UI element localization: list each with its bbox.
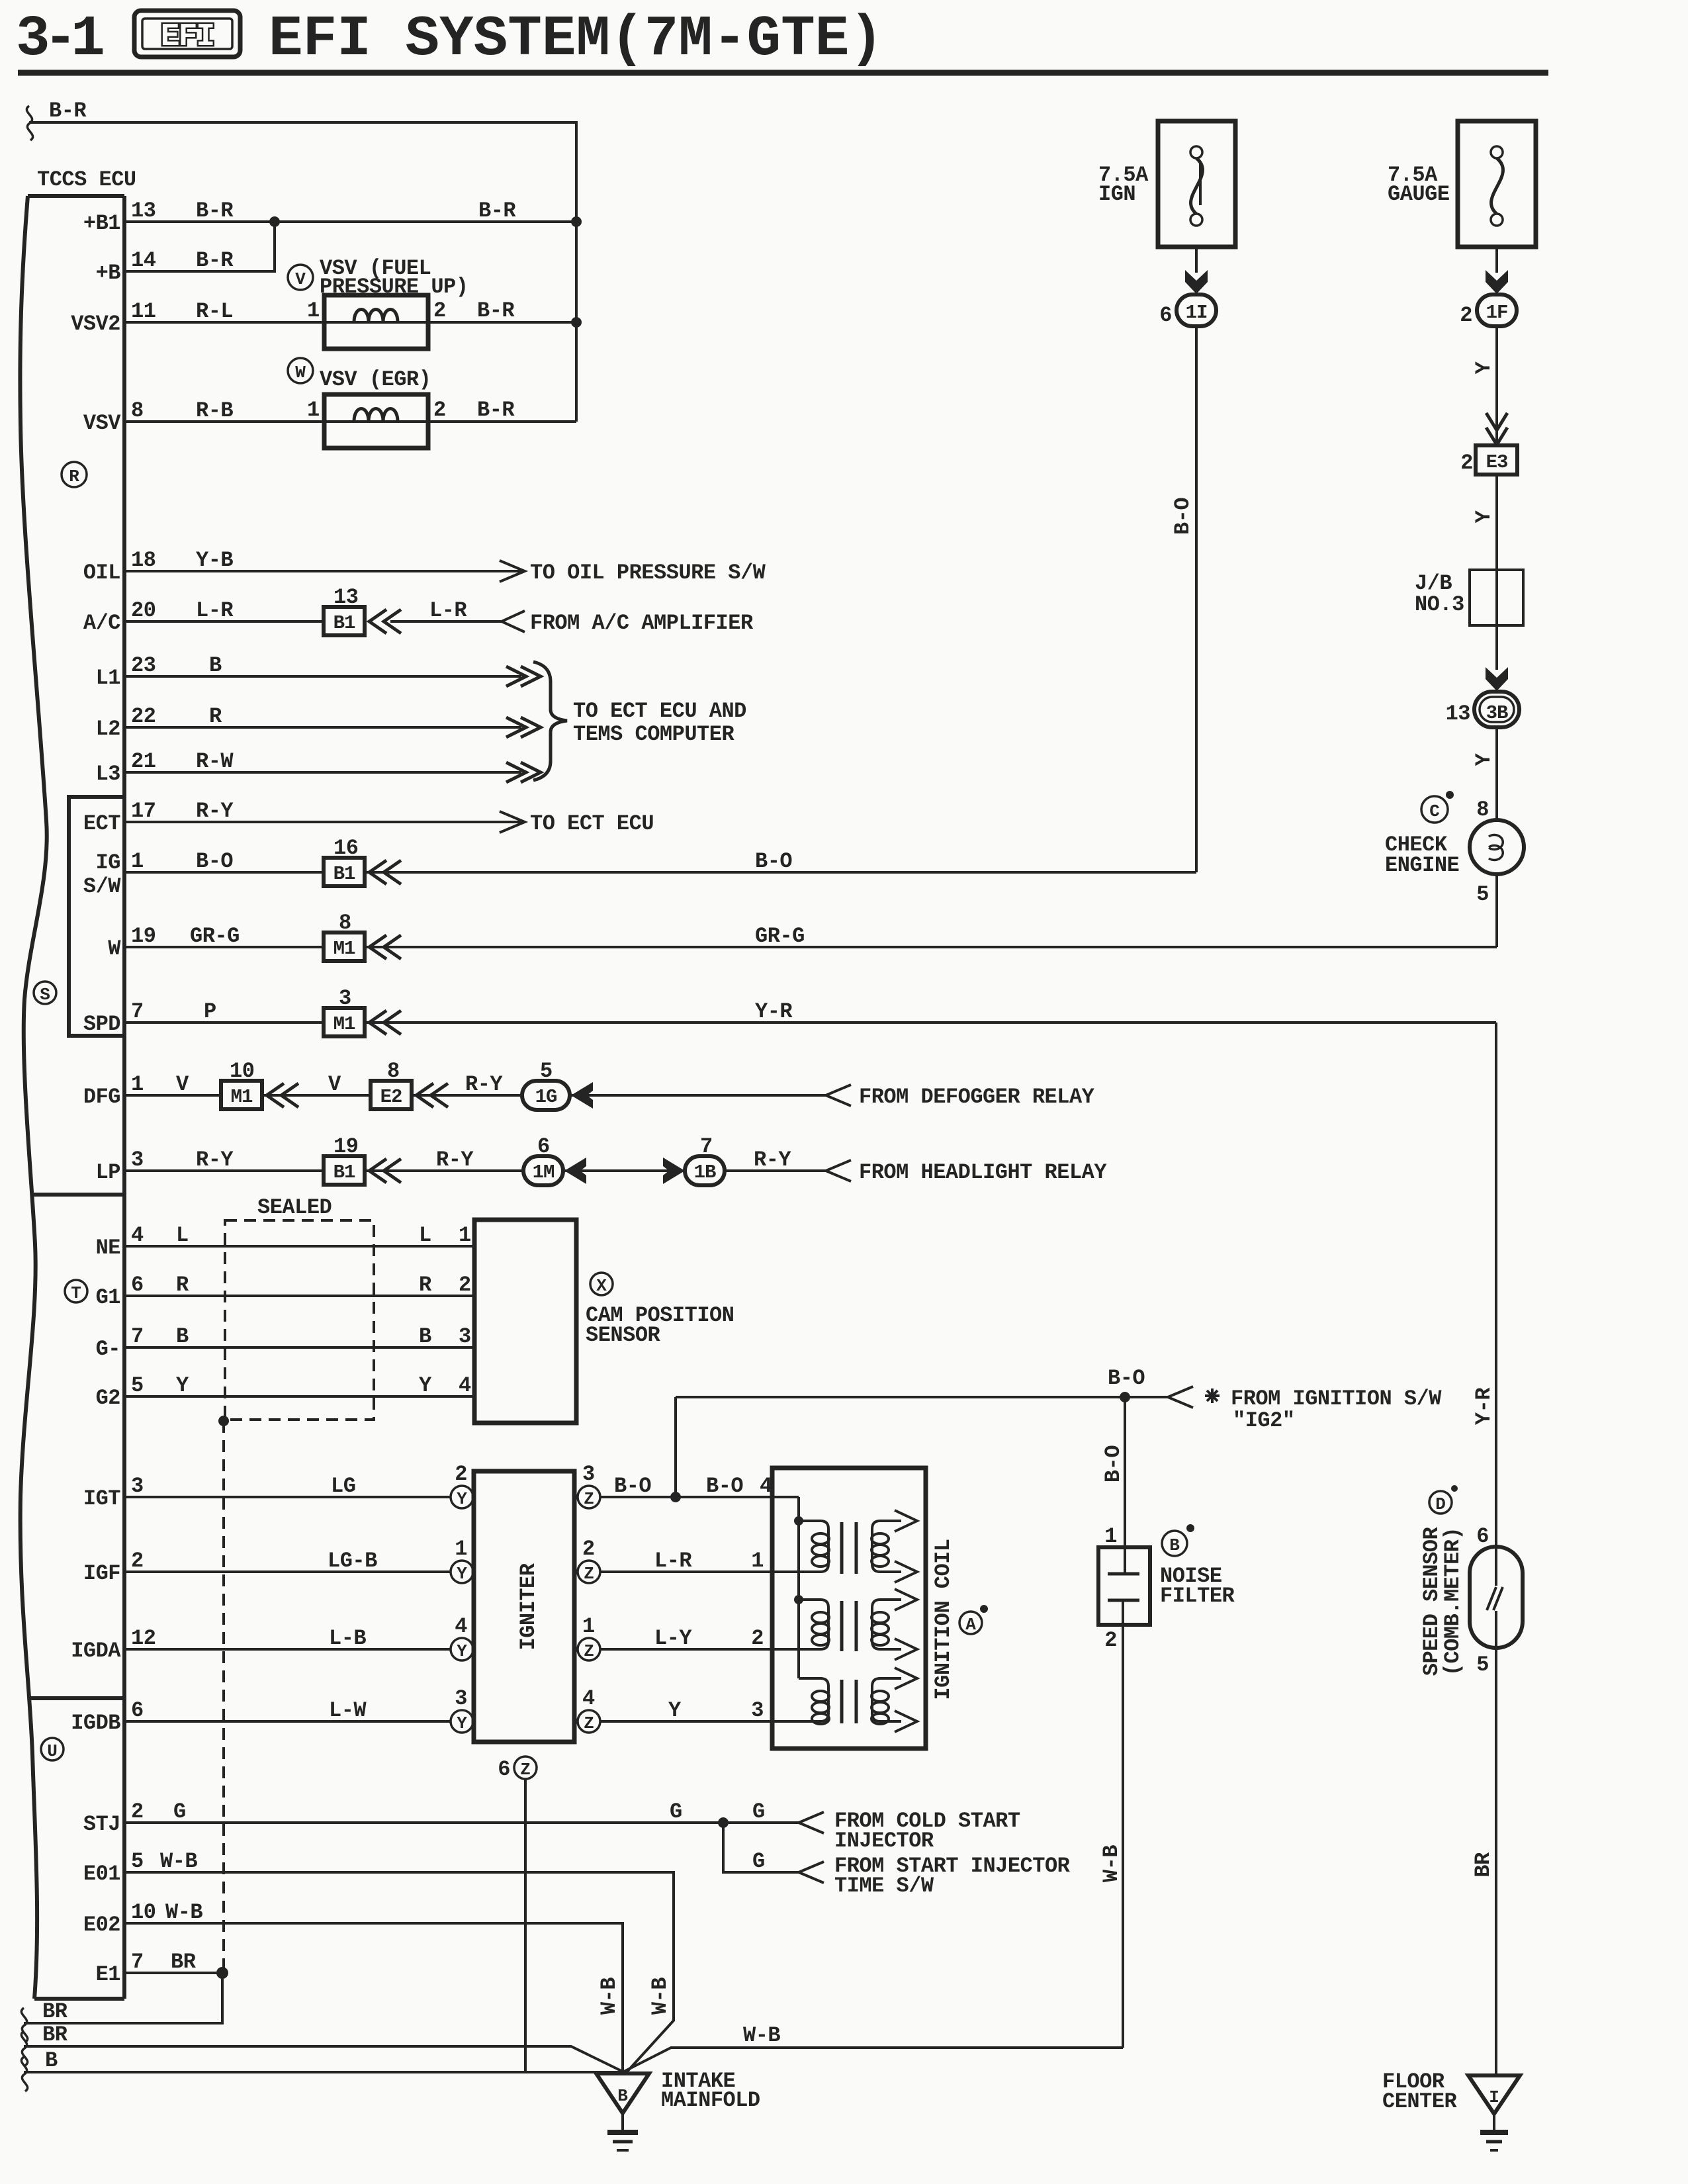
svg-text:R: R [209, 704, 222, 729]
ECU section U divider [30, 1696, 124, 1700]
connector S label [34, 981, 56, 1005]
pin G2 wire 5 Y [96, 1373, 474, 1410]
wire B body ground 3 [21, 2048, 623, 2091]
svg-text:TEMS COMPUTER: TEMS COMPUTER [573, 722, 734, 747]
svg-text:1: 1 [455, 1537, 467, 1561]
transformer 2 [799, 1589, 917, 1660]
svg-text:10: 10 [131, 1900, 155, 1925]
svg-text:10: 10 [230, 1059, 254, 1083]
pin +B wire 14 B-R [96, 222, 275, 285]
igniter pin Z2 wire L-R [578, 1537, 821, 1584]
svg-text:NO.3: NO.3 [1415, 592, 1464, 617]
ECU section S bracket [69, 797, 124, 1036]
svg-text:G1: G1 [96, 1285, 120, 1310]
svg-text:M1: M1 [333, 938, 355, 960]
svg-text:20: 20 [131, 598, 155, 623]
svg-text:L3: L3 [96, 762, 120, 786]
transformer 1 [799, 1510, 917, 1582]
SEALED shield box [225, 1195, 374, 1420]
svg-text:V: V [176, 1072, 189, 1097]
svg-text:E2: E2 [380, 1086, 402, 1108]
svg-text:Y-R: Y-R [1472, 1387, 1496, 1425]
svg-text:Y-B: Y-B [196, 548, 233, 572]
arrow into 1F [1486, 270, 1508, 294]
svg-text:1G: 1G [535, 1086, 557, 1108]
svg-text:IGDA: IGDA [71, 1639, 121, 1663]
igniter pin Z1 wire L-Y [578, 1614, 821, 1661]
svg-text:1: 1 [307, 298, 320, 323]
svg-text:SEALED: SEALED [257, 1195, 332, 1220]
pin E01 wire 5 W-B [83, 1849, 674, 2072]
svg-text:8: 8 [1476, 797, 1489, 822]
wire Y to E3 [1472, 326, 1507, 445]
wire lamp to W row [1495, 874, 1498, 947]
svg-text:R-Y: R-Y [436, 1148, 474, 1172]
wire BR to floor center [1471, 1648, 1496, 2075]
svg-text:B: B [209, 653, 222, 678]
igniter pin Z3 wire B-O [578, 1462, 799, 1509]
svg-text:2: 2 [131, 1799, 144, 1824]
svg-text:L: L [176, 1223, 189, 1248]
svg-text:L-B: L-B [329, 1626, 366, 1651]
svg-text:BR: BR [42, 1999, 68, 2024]
svg-text:4: 4 [131, 1223, 144, 1248]
svg-text:7: 7 [131, 999, 144, 1024]
svg-text:6: 6 [537, 1134, 550, 1159]
brace to ECT ECU and TEMS computer [533, 662, 746, 780]
svg-text:22: 22 [131, 704, 155, 729]
pin L3 wire 21 R-W [96, 749, 541, 786]
svg-text:2: 2 [131, 1549, 144, 1573]
svg-text:2: 2 [433, 298, 446, 323]
wire B-O to noise filter [1101, 1397, 1126, 1574]
svg-text:LP: LP [96, 1160, 120, 1185]
pin W wire 19 GR-G [108, 911, 1497, 961]
svg-text:Z: Z [584, 1713, 594, 1733]
ignition coil box A [772, 1468, 988, 1749]
svg-text:VSV: VSV [83, 411, 121, 435]
svg-text:P: P [204, 999, 216, 1024]
svg-text:1: 1 [131, 1072, 144, 1097]
pin LP wire 3 R-Y [96, 1134, 1108, 1185]
svg-text:1: 1 [459, 1223, 471, 1248]
svg-text:FROM DEFOGGER RELAY: FROM DEFOGGER RELAY [859, 1085, 1095, 1109]
pin VSV2 wire 11 R-L [71, 298, 576, 336]
wire Y to check engine [1472, 727, 1497, 822]
pin ECT wire 17 R-Y [83, 799, 654, 836]
svg-text:R-Y: R-Y [465, 1072, 503, 1097]
igniter [474, 1471, 574, 1742]
pin A/C wire 20 L-R [83, 585, 754, 635]
svg-text:G2: G2 [96, 1386, 120, 1410]
svg-text:L: L [419, 1223, 431, 1248]
svg-text:R-Y: R-Y [754, 1148, 791, 1172]
svg-text:1: 1 [751, 1549, 764, 1573]
svg-text:6: 6 [1159, 303, 1172, 328]
svg-text:1: 1 [582, 1614, 595, 1639]
pin L2 wire 22 R [96, 704, 541, 741]
svg-text:5: 5 [1476, 882, 1489, 907]
svg-text:DFG: DFG [83, 1085, 120, 1109]
svg-text:BR: BR [42, 2023, 68, 2047]
svg-text:4: 4 [582, 1686, 595, 1711]
svg-text:3-1: 3-1 [16, 7, 103, 71]
junction VSV2/B-R [571, 317, 582, 328]
svg-text:OIL: OIL [83, 561, 120, 585]
svg-text:2: 2 [582, 1537, 595, 1561]
svg-text:G: G [752, 1799, 765, 1824]
pin NE wire 4 L [96, 1223, 474, 1260]
svg-text:A/C: A/C [83, 611, 120, 635]
svg-text:+B1: +B1 [83, 211, 120, 236]
svg-text:G-: G- [96, 1337, 120, 1361]
svg-text:FROM HEADLIGHT RELAY: FROM HEADLIGHT RELAY [859, 1160, 1107, 1185]
svg-text:7: 7 [131, 1950, 144, 1974]
svg-text:B-O: B-O [706, 1474, 743, 1498]
svg-text:19: 19 [333, 1134, 358, 1159]
svg-text:R: R [69, 467, 79, 486]
svg-text:3: 3 [455, 1686, 467, 1711]
svg-text:3: 3 [339, 986, 351, 1011]
svg-text:2: 2 [1460, 303, 1472, 328]
svg-text:BR: BR [1471, 1852, 1495, 1878]
svg-text:B-O: B-O [755, 849, 792, 874]
wire Y to J/B [1472, 475, 1497, 570]
connector 1I pin 6 [1159, 295, 1216, 328]
coil primary bus [797, 1497, 800, 1678]
svg-text:E02: E02 [83, 1913, 120, 1937]
svg-text:B: B [419, 1324, 431, 1349]
ground intake manifold B [596, 2069, 760, 2150]
transformer 3 [799, 1668, 917, 1732]
pin IGT wire 3 LG [83, 1462, 473, 1511]
pin IG S/W wire 1 B-O [83, 836, 1196, 899]
svg-text:B: B [176, 1324, 189, 1349]
svg-text:L-R: L-R [654, 1549, 692, 1573]
svg-text:3: 3 [751, 1698, 764, 1723]
svg-text:FILTER: FILTER [1160, 1584, 1235, 1608]
svg-text:W-B: W-B [597, 1978, 621, 2015]
svg-text:X: X [596, 1276, 607, 1296]
svg-text:Y: Y [1472, 510, 1496, 523]
svg-text:Z: Z [584, 1641, 594, 1661]
svg-text:18: 18 [131, 548, 155, 572]
connector E3 pin 2 [1460, 445, 1517, 475]
svg-text:INJECTOR: INJECTOR [834, 1829, 934, 1853]
svg-text:G: G [752, 1849, 765, 1874]
svg-text:B-O: B-O [1108, 1366, 1145, 1390]
svg-text:SENSOR: SENSOR [586, 1323, 661, 1347]
svg-text:Y: Y [457, 1489, 467, 1509]
svg-text:FROM A/C AMPLIFIER: FROM A/C AMPLIFIER [530, 611, 754, 635]
svg-text:W-B: W-B [160, 1849, 197, 1874]
wire BR body ground 2 [21, 2023, 623, 2071]
ECU right edge [122, 196, 126, 1999]
svg-text:M1: M1 [333, 1013, 355, 1035]
connector 3B pin 13 [1446, 692, 1519, 727]
svg-text:I: I [1489, 2087, 1499, 2107]
svg-text:L-Y: L-Y [654, 1626, 692, 1651]
svg-text:4: 4 [459, 1373, 471, 1398]
svg-text:Y: Y [1472, 752, 1496, 766]
svg-text:17: 17 [131, 799, 155, 823]
svg-text:Z: Z [584, 1489, 594, 1509]
svg-text:19: 19 [131, 924, 155, 948]
B-O riser to IG2 [674, 1397, 677, 1497]
svg-text:Y: Y [1472, 361, 1496, 374]
ECU bottom edge [34, 1997, 124, 2001]
svg-text:IG: IG [96, 850, 120, 875]
ground floor center I [1382, 2070, 1520, 2150]
svg-text:6: 6 [1476, 1524, 1489, 1549]
svg-text:FROM IGNITION S/W: FROM IGNITION S/W [1231, 1387, 1442, 1411]
svg-text:T: T [71, 1283, 81, 1303]
svg-text:5: 5 [540, 1059, 553, 1083]
svg-text:MAINFOLD: MAINFOLD [661, 2088, 760, 2113]
noise filter B [1098, 1524, 1235, 1653]
svg-text:16: 16 [333, 836, 358, 860]
svg-text:VSV (EGR): VSV (EGR) [320, 367, 431, 392]
svg-text:ECT: ECT [83, 811, 120, 836]
ECU section T divider [32, 1193, 124, 1197]
svg-text:1B: 1B [694, 1161, 716, 1183]
pin G1 wire 6 R [96, 1273, 474, 1310]
VSV (fuel pressure up) solenoid V [288, 256, 468, 349]
VSV (EGR) solenoid W [288, 358, 431, 448]
asterisk marker [1205, 1388, 1220, 1403]
svg-text:3: 3 [582, 1462, 595, 1486]
svg-text:3: 3 [131, 1148, 144, 1172]
connector U label [41, 1738, 64, 1761]
svg-text:Y: Y [668, 1698, 682, 1723]
svg-text:B: B [617, 2086, 628, 2106]
pin SPD wire 7 P [83, 986, 1496, 1036]
title rule [18, 70, 1548, 76]
svg-text:L1: L1 [96, 666, 120, 690]
igniter ground pin Z6 [498, 1756, 537, 2072]
svg-text:3: 3 [131, 1474, 144, 1498]
svg-text:M1: M1 [231, 1086, 253, 1108]
svg-text:3: 3 [459, 1324, 471, 1349]
svg-text:SPD: SPD [83, 1012, 120, 1036]
pin DFG wire 1 V [83, 1059, 1095, 1110]
svg-text:R-Y: R-Y [196, 1148, 234, 1172]
svg-text:2: 2 [1460, 451, 1473, 475]
svg-text:EFI: EFI [161, 19, 214, 55]
pin IGDA wire 12 L-B [71, 1614, 473, 1663]
svg-text:Z: Z [520, 1760, 531, 1780]
IG2 feed wire B-O [676, 1366, 1442, 1433]
svg-text:Y-R: Y-R [755, 999, 793, 1024]
svg-text:3B: 3B [1486, 702, 1508, 724]
svg-text:Y: Y [419, 1373, 432, 1398]
svg-text:8: 8 [387, 1059, 400, 1083]
svg-text:Y: Y [457, 1641, 467, 1661]
svg-text:7: 7 [700, 1134, 713, 1159]
svg-text:1: 1 [307, 398, 320, 422]
svg-text:13: 13 [1446, 702, 1470, 726]
svg-text:13: 13 [131, 199, 155, 223]
svg-text:A: A [965, 1615, 976, 1635]
pin OIL wire 18 Y-B [83, 548, 766, 585]
wire W-B from ground bus to noise filter [623, 2023, 1123, 2072]
svg-text:B-R: B-R [477, 298, 515, 323]
svg-text:R: R [419, 1273, 432, 1297]
svg-text:6: 6 [131, 1698, 144, 1723]
svg-text:B-R: B-R [478, 199, 516, 223]
svg-text:TO OIL PRESSURE S/W: TO OIL PRESSURE S/W [530, 561, 766, 585]
svg-text:U: U [47, 1741, 58, 1761]
svg-text:IGF: IGF [83, 1561, 120, 1586]
svg-text:5: 5 [131, 1849, 144, 1874]
svg-text:D: D [1435, 1494, 1446, 1514]
svg-text:2: 2 [1104, 1628, 1117, 1653]
svg-text:C: C [1429, 801, 1440, 821]
svg-text:B-O: B-O [1171, 498, 1195, 535]
svg-text:L2: L2 [96, 717, 120, 741]
svg-text:2: 2 [751, 1626, 764, 1651]
junction +B1/B-R [571, 216, 582, 227]
svg-text:8: 8 [339, 911, 351, 935]
svg-text:NE: NE [96, 1236, 120, 1260]
svg-text:LG-B: LG-B [328, 1549, 377, 1573]
svg-text:E1: E1 [96, 1962, 120, 1987]
svg-text:Y: Y [457, 1564, 467, 1584]
cut squiggle top [26, 106, 32, 140]
pin IGF wire 2 LG-B [83, 1537, 473, 1586]
connector R label [62, 462, 87, 487]
svg-text:E3: E3 [1486, 451, 1508, 473]
pin STJ wire 2 G [83, 1799, 1020, 1853]
fuse IGN 7.5A [1098, 121, 1235, 273]
svg-text:B-O: B-O [614, 1474, 651, 1498]
svg-text:+B: +B [96, 261, 121, 285]
svg-text:V: V [295, 269, 306, 289]
svg-text:14: 14 [131, 248, 156, 273]
svg-text:B-R: B-R [49, 99, 87, 123]
svg-text:2: 2 [455, 1462, 467, 1486]
svg-text:TO ECT ECU: TO ECT ECU [530, 811, 654, 836]
svg-text:IGN: IGN [1098, 182, 1135, 206]
svg-text:CENTER: CENTER [1382, 2089, 1458, 2114]
svg-text:Z: Z [584, 1564, 594, 1584]
svg-text:Y: Y [176, 1373, 189, 1398]
wire W-B from noise filter to ground bus [1099, 1600, 1124, 2048]
svg-text:S/W: S/W [83, 874, 121, 899]
junction shield/E1 [218, 1416, 229, 1426]
svg-text:7: 7 [131, 1324, 144, 1349]
arrow into 1I [1185, 270, 1208, 294]
svg-text:6: 6 [498, 1757, 510, 1782]
svg-text:B1: B1 [333, 1161, 355, 1183]
svg-text:IGDB: IGDB [71, 1711, 120, 1735]
igniter pin Z4 wire Y [578, 1686, 821, 1733]
svg-text:R-W: R-W [196, 749, 234, 774]
svg-text:IGNITER: IGNITER [516, 1563, 541, 1650]
svg-text:W-B: W-B [743, 2023, 780, 2048]
svg-text:(COMB.METER): (COMB.METER) [1441, 1527, 1465, 1676]
svg-text:GR-G: GR-G [190, 924, 240, 948]
svg-text:S: S [40, 985, 50, 1005]
connector 1F pin 2 [1460, 295, 1517, 328]
svg-text:IGT: IGT [83, 1486, 120, 1511]
svg-text:E01: E01 [83, 1862, 120, 1886]
svg-text:B-O: B-O [1101, 1445, 1126, 1482]
svg-text:4: 4 [455, 1614, 467, 1639]
svg-text:R: R [176, 1273, 189, 1297]
svg-text:B1: B1 [333, 612, 355, 634]
pin G- wire 7 B [96, 1324, 474, 1361]
svg-text:L-R: L-R [429, 598, 467, 623]
connector T label [65, 1280, 87, 1303]
pin L1 wire 23 B [96, 653, 541, 690]
svg-text:IGNITION COIL: IGNITION COIL [931, 1539, 955, 1700]
svg-text:VSV2: VSV2 [71, 312, 120, 336]
svg-text:"IG2": "IG2" [1233, 1408, 1295, 1433]
arrow into 3B [1486, 667, 1508, 691]
svg-text:5: 5 [1476, 1653, 1489, 1677]
svg-text:W-B: W-B [165, 1900, 202, 1925]
cam position sensor X [474, 1220, 734, 1423]
svg-text:1: 1 [1104, 1524, 1117, 1549]
svg-text:STJ: STJ [83, 1812, 120, 1837]
ECU top edge [28, 194, 124, 198]
svg-text:W: W [295, 363, 306, 383]
svg-text:W-B: W-B [648, 1978, 672, 2015]
svg-text:R-B: R-B [196, 398, 233, 423]
svg-text:G: G [670, 1799, 682, 1824]
svg-text:L-R: L-R [196, 598, 234, 623]
svg-text:11: 11 [131, 299, 155, 324]
pin E02 wire 10 W-B [83, 1900, 623, 2072]
svg-text:2: 2 [459, 1273, 471, 1297]
shield drain dashed wire [222, 1421, 225, 1973]
pin IGDB wire 6 L-W [71, 1686, 473, 1735]
fuse GAUGE 7.5A [1388, 121, 1536, 273]
svg-text:5: 5 [131, 1373, 144, 1398]
svg-text:B: B [1169, 1535, 1180, 1555]
pin E1 wire 7 BR [96, 1950, 228, 1987]
svg-text:B-R: B-R [196, 248, 234, 273]
svg-text:8: 8 [131, 398, 144, 423]
svg-text:1I: 1I [1186, 302, 1208, 324]
pin VSV wire 8 R-B [83, 398, 576, 435]
svg-text:TCCS ECU: TCCS ECU [37, 167, 136, 192]
svg-text:V: V [328, 1072, 341, 1097]
branch G to start injector time switch [723, 1823, 1071, 1898]
svg-text:B: B [45, 2048, 58, 2073]
top B-R feed wire [29, 122, 576, 422]
svg-text:TIME S/W: TIME S/W [834, 1874, 934, 1898]
svg-text:GAUGE: GAUGE [1388, 182, 1450, 206]
svg-text:G: G [173, 1799, 186, 1824]
svg-text:23: 23 [131, 653, 155, 678]
svg-text:L-W: L-W [329, 1698, 367, 1723]
svg-text:21: 21 [131, 749, 155, 774]
svg-text:12: 12 [131, 1626, 155, 1651]
ECU wavy left edge [20, 196, 46, 1999]
svg-text:2: 2 [433, 398, 446, 422]
svg-text:B1: B1 [333, 863, 355, 885]
svg-text:B-R: B-R [477, 398, 515, 422]
svg-text:B-R: B-R [196, 199, 234, 223]
svg-text:R-Y: R-Y [196, 799, 234, 823]
svg-text:13: 13 [333, 585, 358, 610]
pin +B1 wire 13 B-R [83, 199, 576, 236]
svg-text:BR: BR [171, 1950, 197, 1974]
wire Y-R down [1472, 1023, 1496, 1549]
wire to 3B [1495, 625, 1498, 670]
